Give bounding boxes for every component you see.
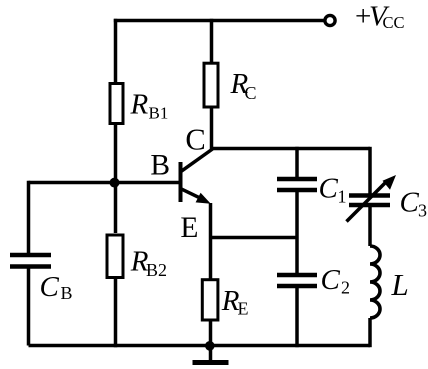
svg-text:C: C [40,271,60,303]
svg-text:B1: B1 [149,104,169,123]
svg-text:B2: B2 [146,260,167,280]
svg-text:1: 1 [338,186,347,206]
svg-text:CC: CC [383,13,405,32]
svg-text:E: E [238,298,249,318]
svg-text:B: B [150,150,170,182]
svg-text:B: B [61,283,73,303]
svg-text:2: 2 [341,277,350,297]
svg-text:C: C [185,122,205,156]
svg-text:L: L [391,267,409,302]
svg-text:C: C [319,173,339,205]
svg-text:C: C [400,186,420,218]
svg-text:E: E [180,212,198,244]
svg-text:C: C [321,264,341,296]
svg-text:C: C [245,83,257,103]
svg-text:3: 3 [418,200,427,220]
svg-text:R: R [130,89,149,121]
